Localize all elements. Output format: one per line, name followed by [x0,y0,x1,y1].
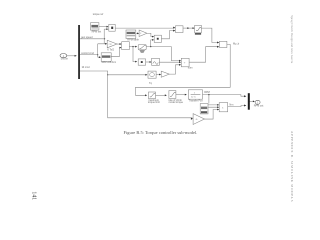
svg-text:RPM out: RPM out [254,104,264,108]
inport 1 [60,54,69,61]
gain G1 [139,30,147,37]
node junction sat-out [150,46,151,47]
svg-text:gen speed: gen speed [81,35,93,39]
svg-text:Transfer Fcn: Transfer Fcn [189,98,203,102]
svg-text:torque ref: torque ref [93,12,104,16]
svg-text:Sprag Clutch Design and Alex G: Sprag Clutch Design and Alex Garcia [290,15,294,64]
wire final mux to outport [249,100,254,102]
wire G3 up to sum S in3 [169,65,180,74]
wire demux out1 (gen speed) [80,29,108,44]
svg-text:model torque: model torque [169,100,184,104]
svg-text:sum: sum [188,67,193,70]
product P [219,102,233,111]
wire C out to final mux bar, branch down to display D [203,95,246,104]
wire demux out3 (tilt cmd) [80,71,193,118]
gain G3 [161,71,169,77]
wire inport to demux [67,55,77,57]
wire scope1 to switch [99,26,108,28]
wire rate limiter Y down to mux M in1 [201,28,218,42]
wire relay to curve block U [146,61,151,63]
svg-text:Figure B.5: Torque controller: Figure B.5: Torque controller sub-model. [124,130,198,135]
svg-text:RPM table: RPM table [127,37,139,41]
node junction out3 [107,74,108,75]
svg-text:RPM: RPM [204,90,210,94]
svg-text:cmd in: cmd in [61,57,69,61]
wire Z out up to X in2 [161,31,174,39]
PID triangle [107,40,117,51]
block V [148,71,156,78]
outport 1 [254,100,264,107]
svg-text:+: + [184,61,186,65]
wire sum S out to mux M in2 [189,47,218,63]
svg-text:141: 141 [30,191,36,200]
wire gain G2 up to product P in3 [205,110,219,120]
mux bar (output) [248,93,250,110]
curve block U [152,58,160,65]
svg-text:PID: PID [109,44,113,46]
sum block S [181,58,189,67]
wire W out to saturation, branch down to relay [129,47,136,62]
node junction out2 [97,54,98,55]
svg-text:MATLAB Fcn: MATLAB Fcn [102,60,117,64]
wire PID out to W in1 [117,43,121,45]
node junction W-out [132,46,133,47]
wire mux M out down and left to block A [136,44,231,95]
wire B to C [176,94,186,96]
block A (saturation) [148,92,160,104]
wire demux out2 (control cmd) [80,44,101,57]
svg-text:Nm: Nm [229,102,233,106]
svg-text:RPM set: RPM set [92,29,102,33]
svg-text:-K-: -K- [195,119,198,121]
relay block 2 [138,59,145,65]
svg-text:tilt cmd: tilt cmd [82,65,90,69]
switch block [109,24,115,31]
gain G2 [193,114,204,125]
wire U out to sum S in2 [159,61,180,63]
scope block (top-left source) [91,23,102,34]
wire switch to block X [115,27,174,29]
demux bar [78,25,80,79]
svg-text:K Ts/2: K Ts/2 [107,48,114,52]
block C (transfer fcn) [188,90,203,103]
wire gain G1 to Z in1 [136,33,154,36]
wires [67,27,254,119]
svg-text:torque limit: torque limit [148,100,160,104]
svg-text:control cmd: control cmd [81,51,94,55]
node junction C-out [208,94,209,95]
wire block X to rate limiter Y [183,27,194,29]
wire product P out to final mux bar [228,106,246,107]
block B (rate limiter) [168,91,183,105]
relay block Z [154,35,161,42]
rate limiter Y [195,25,202,34]
wire A to B [156,94,167,96]
wire MATLAB fcn to W in2 [111,48,121,57]
MATLAB fcn block [101,53,117,64]
wire saturation out to sum S and branch up to Z in2 [146,40,180,61]
svg-text:APPENDIX B. SIMULINK MODELS: APPENDIX B. SIMULINK MODELS [290,131,294,202]
subsystem W [122,42,130,50]
node junction out1 [104,38,105,39]
wire display D to product P (two lines) [208,105,219,107]
lookup scope2 block [126,30,139,41]
arrowheads [75,26,255,120]
mux M [219,41,239,47]
wire V to gain G3 [156,74,160,76]
sum block X [176,26,184,33]
svg-text:My_b: My_b [233,41,240,45]
display block D [200,104,208,114]
saturation block [138,45,146,53]
junction dots [97,38,209,95]
